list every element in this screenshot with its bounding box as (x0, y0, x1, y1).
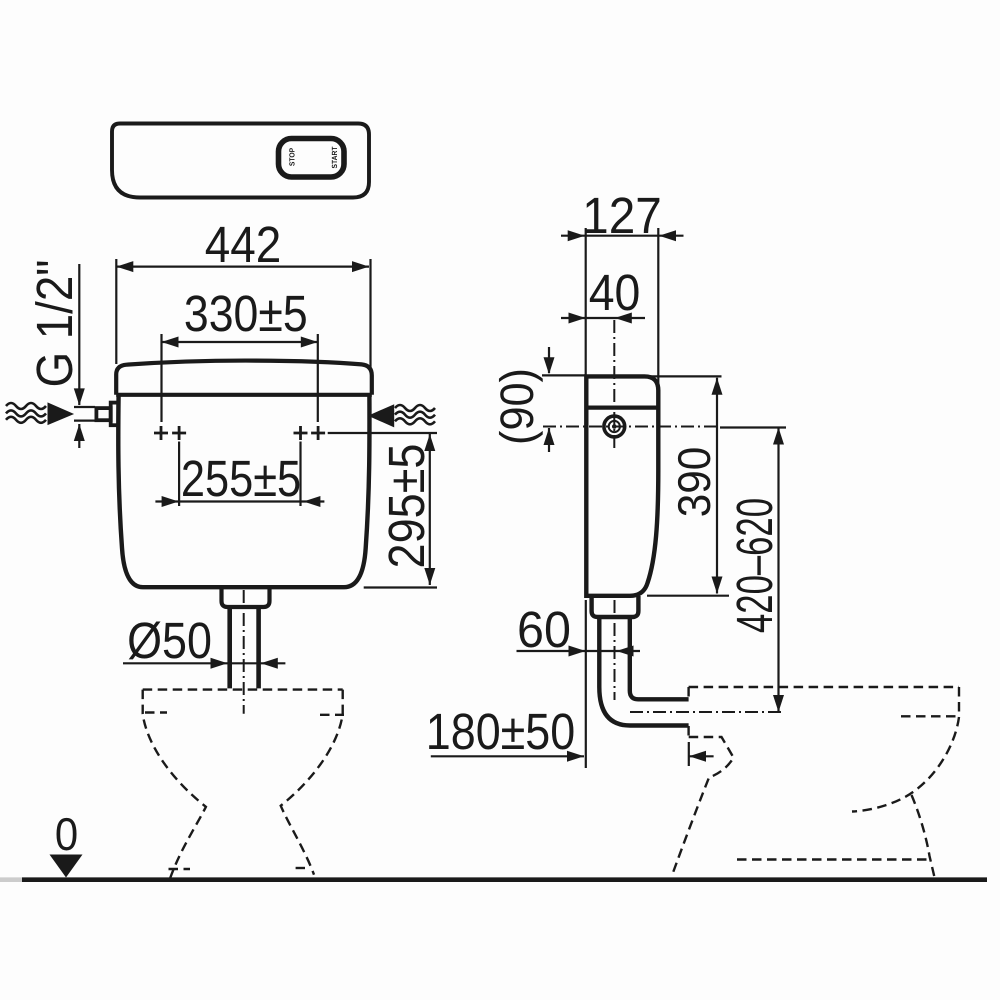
420-620 dim line (777, 428, 779, 713)
side view cistern outline (586, 376, 658, 595)
cistern body (front view) (118, 395, 369, 587)
top view outline (112, 124, 369, 198)
side lid joint (586, 406, 658, 410)
inlet nut (111, 403, 119, 426)
svg-text:420–620: 420–620 (726, 498, 783, 633)
dim line 255±5 (155, 442, 324, 507)
ground line faded stub (0, 877, 22, 882)
outlet pipe walls (230, 607, 259, 688)
flush pipe with elbow (599, 617, 688, 726)
dim line 60 (517, 650, 641, 652)
svg-text:442: 442 (205, 216, 282, 273)
water inflow arrow (left) (48, 402, 75, 425)
outlet center line (243, 590, 245, 714)
svg-text:295±5: 295±5 (378, 444, 435, 569)
svg-text:40: 40 (589, 264, 641, 321)
wavy lines right (395, 405, 435, 424)
svg-text:Ø50: Ø50 (127, 612, 212, 669)
svg-text:0: 0 (55, 808, 78, 860)
svg-text:330±5: 330±5 (184, 285, 308, 342)
flush button (279, 139, 345, 178)
dim line 180±50 (431, 742, 714, 766)
svg-text:390: 390 (668, 447, 720, 518)
water inflow arrow (right, on front view) (368, 404, 394, 427)
cistern lid (front view) (116, 361, 372, 395)
svg-text:STOP: STOP (288, 148, 297, 166)
dim line Ø50 (123, 662, 285, 664)
dim line 442 (116, 259, 370, 369)
svg-text:(90): (90) (490, 368, 543, 445)
datum triangle (50, 855, 83, 878)
mounting hole crosses (154, 426, 325, 440)
svg-text:60: 60 (517, 601, 571, 658)
pipe center line vertical (614, 600, 616, 700)
toilet bowl right (dashed outline) (673, 687, 960, 876)
svg-text:180±50: 180±50 (426, 703, 575, 760)
(90) dim line (542, 347, 585, 452)
dim line 127 (561, 228, 684, 388)
lid bottom joint line (116, 393, 372, 397)
outlet flange (222, 588, 270, 607)
dim line 295±5 (328, 433, 437, 588)
toilet bowl left (dashed outline) (143, 690, 344, 878)
svg-text:G 1/2": G 1/2" (26, 260, 83, 388)
dim line 40 (561, 317, 645, 319)
front face extension line (585, 600, 587, 768)
inlet collar (96, 408, 110, 420)
fixing screw (side) (604, 416, 625, 437)
pipe center line horizontal (630, 711, 784, 713)
dim line 330±5 (162, 334, 318, 422)
side outlet neck (592, 596, 639, 617)
svg-text:START: START (330, 146, 339, 168)
wavy lines left (6, 403, 46, 423)
svg-text:255±5: 255±5 (181, 450, 301, 507)
ground line (22, 877, 987, 882)
mounting level dash-dot line (543, 426, 720, 428)
390 dim line (647, 376, 729, 595)
G 1/2 dim line (74, 264, 95, 448)
valve center line (vertical dash-dot) (613, 320, 615, 452)
